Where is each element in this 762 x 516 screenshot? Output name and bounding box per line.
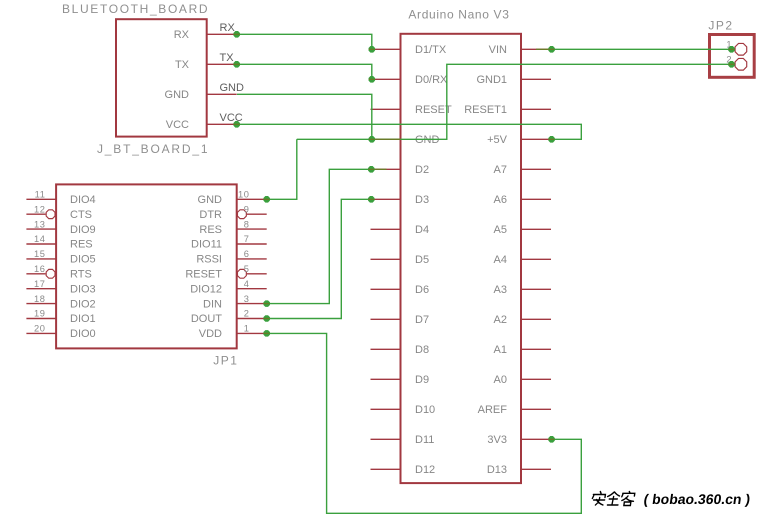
junction dot at arduino D3 <box>369 197 375 203</box>
svg-text:16: 16 <box>34 264 46 274</box>
arduino left pin D0/RX stub <box>371 78 401 80</box>
bluetooth pin VCC stub <box>207 123 237 125</box>
svg-text:VCC: VCC <box>166 119 189 131</box>
bluetooth pin RX stub <box>207 33 237 35</box>
arduino left pin D2 stub <box>371 168 401 170</box>
connector JP2 box <box>710 35 755 78</box>
svg-text:VDD: VDD <box>199 328 222 340</box>
svg-text:A5: A5 <box>494 224 507 236</box>
svg-text:RESET: RESET <box>185 269 222 281</box>
junction dot at arduino 3V3 <box>549 437 555 443</box>
svg-text:D3: D3 <box>415 194 429 206</box>
svg-text:GND: GND <box>220 82 245 94</box>
junction dot at arduino D2 <box>369 167 375 173</box>
JP1 pin 13 (DIO9) stub <box>26 228 56 230</box>
svg-text:GND1: GND1 <box>476 74 507 86</box>
arduino left pin D11 stub <box>371 438 401 440</box>
junction dot at arduino D1/TX <box>369 47 375 53</box>
JP1 pin 5 inversion bubble <box>237 269 246 278</box>
svg-text:3V3: 3V3 <box>487 434 507 446</box>
svg-text:GND: GND <box>198 194 223 206</box>
JP1 pin 6 (RSSI) stub <box>237 258 267 260</box>
svg-text:5: 5 <box>244 264 250 274</box>
JP1 pin 19 (DIO1) stub <box>26 318 56 320</box>
svg-text:( bobao.360.cn ): ( bobao.360.cn ) <box>643 491 752 507</box>
arduino right pin A3 stub <box>521 288 551 290</box>
arduino right pin A2 stub <box>521 318 551 320</box>
JP1 pin 14 (RES) stub <box>26 243 56 245</box>
JP1 pin 3 (DIN) stub <box>237 303 267 305</box>
svg-text:D9: D9 <box>415 374 429 386</box>
arduino left pin D9 stub <box>371 378 401 380</box>
JP1 pin 18 (DIO2) stub <box>26 303 56 305</box>
junction dot at JP1 pin 1 <box>264 331 270 337</box>
junction dot at JP2 pin 1 <box>729 47 735 53</box>
wire net GND: branch left from arduino GND <box>297 138 372 140</box>
svg-text:A4: A4 <box>494 254 507 266</box>
arduino right pin A4 stub <box>521 258 551 260</box>
svg-text:D11: D11 <box>415 434 434 446</box>
svg-text:Arduino Nano V3: Arduino Nano V3 <box>408 8 509 22</box>
svg-text:RES: RES <box>199 224 222 236</box>
arduino right pin RESET1 stub <box>521 108 551 110</box>
wire net VDD: JP1 pin 1 to arduino 3V3 <box>267 333 582 513</box>
svg-text:3: 3 <box>244 294 250 304</box>
connector JP1 box <box>56 184 237 348</box>
arduino left pin D8 stub <box>371 348 401 350</box>
svg-text:A0: A0 <box>494 374 507 386</box>
svg-text:RTS: RTS <box>70 269 92 281</box>
svg-text:DTR: DTR <box>199 209 222 221</box>
svg-text:4: 4 <box>244 279 250 289</box>
junction dot at BT VCC <box>234 122 240 128</box>
JP1 pin 7 (DIO11) stub <box>237 243 267 245</box>
svg-text:D5: D5 <box>415 254 429 266</box>
svg-text:DIN: DIN <box>203 298 222 310</box>
JP1 pin 12 (CTS) stub <box>26 213 45 215</box>
svg-text:18: 18 <box>34 294 46 304</box>
junction dot at arduino GND <box>369 137 375 143</box>
JP1 pin 11 (DIO4) stub <box>26 198 56 200</box>
arduino nano v3 box <box>401 34 522 483</box>
junction dot at JP2 pin 2 <box>729 62 735 68</box>
JP1 pin 9 inversion bubble <box>237 210 246 219</box>
junction dot at JP1 pin 3 <box>264 301 270 307</box>
wire net GND: arduino GND through box to JP2 pin 2 <box>372 64 732 139</box>
arduino left pin RESET stub <box>371 108 401 110</box>
arduino left pin D3 stub <box>371 198 401 200</box>
arduino right pin A6 stub <box>521 198 551 200</box>
wire net VIN: arduino VIN to JP2 pin 1 <box>552 48 732 50</box>
junction dot at BT TX <box>234 62 240 68</box>
bluetooth pin TX stub <box>207 63 237 65</box>
svg-text:RX: RX <box>220 22 236 34</box>
JP2 pin 2 pad octagon <box>735 58 747 70</box>
arduino right pin A0 stub <box>521 378 551 380</box>
svg-text:J_BT_BOARD_1: J_BT_BOARD_1 <box>97 142 209 156</box>
svg-text:1: 1 <box>244 324 250 334</box>
watermark logo text: 安 glyph <box>591 492 605 506</box>
svg-text:D2: D2 <box>415 164 429 176</box>
svg-text:DIO11: DIO11 <box>191 239 222 251</box>
arduino right pin VIN stub <box>521 48 551 50</box>
arduino left pin D4 stub <box>371 228 401 230</box>
JP1 pin 12 inversion bubble <box>46 210 55 219</box>
JP1 pin 20 (DIO0) stub <box>26 332 56 334</box>
svg-text:DIO12: DIO12 <box>190 283 222 295</box>
wire overlap on arduino D2 pin stub <box>374 168 387 170</box>
svg-text:D10: D10 <box>415 404 435 416</box>
svg-text:6: 6 <box>244 249 250 259</box>
svg-text:A7: A7 <box>494 164 507 176</box>
svg-text:DIO9: DIO9 <box>70 224 96 236</box>
junction dot at BT RX <box>234 32 240 38</box>
svg-text:DIO0: DIO0 <box>70 328 96 340</box>
svg-text:DOUT: DOUT <box>191 313 222 325</box>
arduino right pin A1 stub <box>521 348 551 350</box>
svg-text:BLUETOOTH_BOARD: BLUETOOTH_BOARD <box>62 2 209 16</box>
JP1 pin 17 (DIO3) stub <box>26 288 56 290</box>
arduino left pin D12 stub <box>371 468 401 470</box>
svg-text:JP1: JP1 <box>213 354 238 368</box>
JP1 pin 8 (RES) stub <box>237 228 267 230</box>
junction dot at arduino VIN <box>549 47 555 53</box>
JP1 pin 10 (GND) stub <box>237 198 267 200</box>
svg-text:D6: D6 <box>415 284 429 296</box>
wire net GND: BT GND down to arduino GND row <box>237 94 372 139</box>
wire net TX: BT TX to arduino D0/RX <box>237 64 372 79</box>
arduino left pin GND stub <box>371 138 401 140</box>
wire overlap on arduino VIN pin stub <box>536 48 549 50</box>
arduino left pin D7 stub <box>371 318 401 320</box>
svg-text:A6: A6 <box>494 194 507 206</box>
JP1 pin 2 (DOUT) stub <box>237 318 267 320</box>
svg-text:9: 9 <box>244 204 250 214</box>
wire net VCC: BT VCC across to arduino +5V <box>237 124 582 139</box>
svg-text:DIO3: DIO3 <box>70 283 96 295</box>
svg-text:12: 12 <box>34 204 46 214</box>
svg-text:15: 15 <box>34 249 46 259</box>
svg-text:A1: A1 <box>494 344 507 356</box>
JP2 pin 1 pad octagon <box>735 43 747 55</box>
svg-text:RESET1: RESET1 <box>464 104 507 116</box>
svg-text:DIO1: DIO1 <box>70 313 96 325</box>
svg-text:DIO5: DIO5 <box>70 254 96 266</box>
svg-text:13: 13 <box>34 219 46 229</box>
svg-text:DIO2: DIO2 <box>70 298 96 310</box>
svg-text:D1/TX: D1/TX <box>415 44 447 56</box>
arduino right pin D13 stub <box>521 468 551 470</box>
svg-text:D13: D13 <box>487 464 507 476</box>
arduino right pin A7 stub <box>521 168 551 170</box>
svg-text:19: 19 <box>34 309 46 319</box>
svg-text:VCC: VCC <box>220 112 243 124</box>
svg-text:D4: D4 <box>415 224 429 236</box>
junction dot at JP1 pin 2 <box>264 316 270 322</box>
svg-text:A2: A2 <box>494 314 507 326</box>
svg-text:CTS: CTS <box>70 209 92 221</box>
JP1 pin 16 inversion bubble <box>46 269 55 278</box>
junction dot at JP1 pin 10 <box>264 197 270 203</box>
arduino right pin A5 stub <box>521 228 551 230</box>
arduino left pin D10 stub <box>371 408 401 410</box>
svg-text:RSSI: RSSI <box>196 254 222 266</box>
svg-text:RES: RES <box>70 239 93 251</box>
svg-text:AREF: AREF <box>478 404 508 416</box>
svg-text:D7: D7 <box>415 314 429 326</box>
arduino right pin +5V stub <box>521 138 551 140</box>
svg-text:2: 2 <box>244 309 250 319</box>
svg-text:TX: TX <box>220 52 235 64</box>
JP1 pin 4 (DIO12) stub <box>237 288 267 290</box>
arduino right pin GND1 stub <box>521 78 551 80</box>
wire net DIN: JP1 pin 3 to arduino D2 <box>267 169 372 303</box>
JP1 pin 1 (VDD) stub <box>237 332 267 334</box>
arduino left pin D5 stub <box>371 258 401 260</box>
arduino right pin AREF stub <box>521 408 551 410</box>
svg-text:7: 7 <box>244 234 250 244</box>
svg-text:+5V: +5V <box>487 134 508 146</box>
svg-text:JP2: JP2 <box>708 19 733 33</box>
svg-text:17: 17 <box>34 279 46 289</box>
wire net GND: down to JP1 pin 10 <box>267 139 297 199</box>
svg-text:DIO4: DIO4 <box>70 194 96 206</box>
bluetooth module box J_BT_BOARD_1 <box>116 19 207 136</box>
junction dot at arduino D0/RX <box>369 77 375 83</box>
arduino left pin D6 stub <box>371 288 401 290</box>
svg-text:20: 20 <box>34 324 46 334</box>
svg-text:GND: GND <box>165 89 190 101</box>
svg-text:10: 10 <box>238 190 250 200</box>
wire overlap on arduino GND pin stub <box>372 138 401 140</box>
svg-text:TX: TX <box>175 59 190 71</box>
svg-text:8: 8 <box>244 219 250 229</box>
wire net DOUT: JP1 pin 2 to arduino D3 <box>267 199 372 318</box>
junction dot at arduino +5V <box>549 137 555 143</box>
svg-text:11: 11 <box>35 190 46 200</box>
svg-text:VIN: VIN <box>489 44 507 56</box>
wire net RX: BT RX to arduino D1/TX <box>237 34 372 49</box>
svg-text:D12: D12 <box>415 464 435 476</box>
bluetooth pin GND stub <box>207 93 237 95</box>
svg-text:D0/RX: D0/RX <box>415 74 448 86</box>
JP1 pin 16 (RTS) stub <box>26 273 45 275</box>
svg-text:A3: A3 <box>494 284 507 296</box>
svg-text:D8: D8 <box>415 344 429 356</box>
svg-text:RX: RX <box>174 29 190 41</box>
arduino right pin 3V3 stub <box>521 438 551 440</box>
watermark logo text: 客 glyph <box>621 492 635 506</box>
JP1 pin 15 (DIO5) stub <box>26 258 56 260</box>
arduino left pin D1/TX stub <box>371 48 401 50</box>
watermark logo text: 全 glyph <box>606 492 620 505</box>
svg-text:14: 14 <box>34 234 46 244</box>
